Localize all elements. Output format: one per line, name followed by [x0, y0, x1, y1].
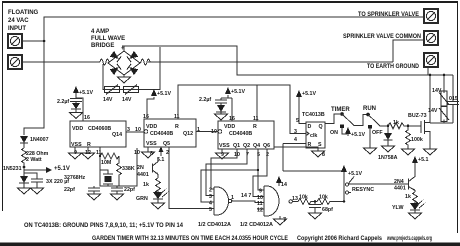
svg-text:100k: 100k [411, 137, 423, 143]
svg-text:10k: 10k [319, 195, 328, 201]
svg-text:BUZ-73: BUZ-73 [408, 113, 427, 119]
svg-text:INPUT: INPUT [8, 26, 26, 32]
svg-text:2 Watt: 2 Watt [26, 157, 42, 163]
svg-text:3: 3 [294, 129, 297, 135]
svg-text:68pf: 68pf [322, 207, 333, 213]
svg-text:RUN: RUN [363, 106, 376, 112]
svg-text:10k: 10k [299, 195, 308, 201]
svg-text:ON TC4013B: GROUND PINS 7,8,9,: ON TC4013B: GROUND PINS 7,8,9,10, 11; +5… [24, 223, 184, 229]
svg-text:11: 11 [174, 114, 180, 120]
svg-text:+5.1V: +5.1V [231, 89, 245, 95]
svg-text:OFF: OFF [372, 130, 383, 136]
svg-text:22pf: 22pf [64, 187, 75, 193]
svg-text:16: 16 [143, 114, 149, 120]
svg-text:10M: 10M [101, 160, 112, 166]
svg-text:+5.1V: +5.1V [348, 171, 362, 177]
svg-text:VDD: VDD [72, 126, 83, 132]
svg-text:7: 7 [283, 217, 286, 223]
svg-text:Q14: Q14 [112, 132, 122, 138]
svg-text:22pf: 22pf [124, 187, 135, 193]
svg-text:TIMER: TIMER [331, 107, 350, 113]
svg-text:GARDEN TIMER WITH 32.13 MINUTE: GARDEN TIMER WITH 32.13 MINUTES ON TIME … [92, 236, 288, 242]
svg-text:11: 11 [253, 116, 259, 122]
svg-text:2N4: 2N4 [394, 179, 404, 185]
svg-text:R: R [308, 142, 312, 148]
svg-text:VSS: VSS [71, 142, 82, 148]
svg-text:1: 1 [231, 195, 234, 201]
svg-text:2.2µf: 2.2µf [199, 97, 211, 103]
svg-text:8: 8 [150, 151, 153, 157]
svg-text:1N4007: 1N4007 [30, 137, 49, 143]
svg-text:Q: Q [319, 124, 323, 130]
svg-text:14V: 14V [122, 97, 132, 103]
svg-text:TC4013B: TC4013B [302, 112, 325, 118]
svg-text:FULL WAVE: FULL WAVE [91, 36, 125, 42]
svg-text:14 7: 14 7 [241, 193, 251, 199]
svg-text:1/2 CD4012A: 1/2 CD4012A [240, 222, 273, 228]
svg-text:1N5231: 1N5231 [3, 166, 22, 172]
svg-text:5: 5 [209, 207, 212, 213]
svg-text:GRN: GRN [136, 196, 148, 202]
svg-text:2: 2 [209, 188, 212, 194]
svg-text:+5.1V: +5.1V [302, 91, 316, 97]
svg-text:www.projects.cappels.org: www.projects.cappels.org [386, 236, 432, 242]
svg-text:+5.1V: +5.1V [351, 132, 365, 138]
svg-text:1: 1 [197, 127, 200, 133]
svg-text:D: D [308, 124, 312, 130]
svg-text:clk: clk [310, 133, 317, 139]
svg-text:14V: 14V [432, 88, 442, 94]
svg-text:+5.1V: +5.1V [54, 166, 70, 172]
svg-text:S: S [318, 142, 322, 148]
svg-text:BRIDGE: BRIDGE [91, 43, 114, 49]
svg-text:TO EARTH GROUND: TO EARTH GROUND [367, 64, 420, 70]
svg-text:11: 11 [257, 201, 263, 207]
svg-text:9: 9 [259, 189, 262, 195]
svg-text:RESYNC: RESYNC [352, 187, 374, 193]
svg-text:CD4040B: CD4040B [229, 131, 252, 137]
svg-text:3: 3 [209, 194, 212, 200]
svg-text:R: R [175, 124, 179, 130]
svg-text:CD4040B: CD4040B [150, 131, 173, 137]
svg-text:Copyright 2006 Richard Cappels: Copyright 2006 Richard Cappels [297, 236, 383, 242]
svg-text:4 AMP: 4 AMP [91, 29, 109, 35]
svg-text:2.2µf: 2.2µf [57, 99, 69, 105]
svg-text:14V: 14V [103, 97, 113, 103]
svg-text:+5.1V: +5.1V [157, 91, 171, 97]
svg-text:10: 10 [257, 195, 263, 201]
svg-text:Q2: Q2 [243, 143, 250, 149]
svg-text:+5.1V: +5.1V [79, 90, 93, 96]
svg-text:16: 16 [84, 115, 90, 121]
svg-text:Q1: Q1 [233, 143, 240, 149]
svg-text:Q5: Q5 [163, 141, 170, 147]
svg-text:4401: 4401 [137, 172, 149, 178]
svg-text:+5.1: +5.1 [418, 157, 429, 163]
svg-text:12: 12 [257, 208, 263, 214]
svg-text:YLW: YLW [392, 205, 403, 211]
svg-text:4: 4 [209, 201, 212, 207]
svg-text:CD4060B: CD4060B [88, 126, 111, 132]
svg-text:1k: 1k [405, 194, 411, 200]
svg-text:015: 015 [449, 96, 458, 102]
svg-text:338K: 338K [122, 166, 135, 172]
svg-text:4: 4 [294, 137, 297, 143]
svg-text:Q12: Q12 [183, 131, 193, 137]
svg-text:FLOATING: FLOATING [8, 10, 39, 16]
svg-text:VSS: VSS [219, 143, 230, 149]
svg-text:VDD: VDD [146, 124, 157, 130]
svg-text:Q4: Q4 [253, 143, 260, 149]
svg-text:24 VAC: 24 VAC [8, 18, 29, 24]
svg-text:Q6: Q6 [263, 143, 270, 149]
svg-text:1N758A: 1N758A [378, 155, 398, 161]
svg-text:1/2 CD4012A: 1/2 CD4012A [198, 222, 231, 228]
svg-text:1k: 1k [143, 182, 149, 188]
svg-text:VDD: VDD [224, 124, 235, 130]
svg-text:ON: ON [330, 130, 338, 136]
svg-text:2N: 2N [137, 165, 144, 171]
svg-text:SPRINKLER VALVE COMMON: SPRINKLER VALVE COMMON [343, 34, 421, 40]
svg-text:32768Hz: 32768Hz [64, 175, 86, 181]
svg-text:VSS: VSS [146, 141, 157, 147]
svg-text:14: 14 [281, 182, 287, 188]
svg-text:4401: 4401 [394, 186, 406, 192]
svg-text:R: R [253, 124, 257, 130]
svg-text:8: 8 [322, 152, 325, 158]
svg-text:14V: 14V [428, 108, 438, 114]
